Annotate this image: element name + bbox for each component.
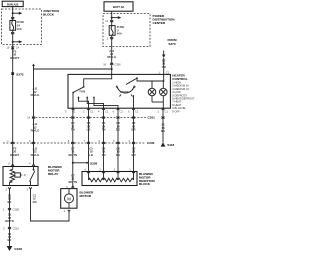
pin 14 connector C201 on relay branch	[27, 116, 35, 120]
svg-text:RD/LG: RD/LG	[107, 55, 116, 59]
svg-text:BK/TN: BK/TN	[69, 180, 78, 184]
svg-text:C201: C201	[13, 227, 20, 231]
blower motor label	[80, 190, 95, 197]
wire label C5 18 LB (P2 lower)	[89, 146, 93, 156]
wire label C3 18 BR (P5 upper)	[131, 121, 135, 131]
wire fan high contact to pin	[94, 98, 118, 108]
node junction dot with arrow (top)	[12, 12, 23, 15]
resistor element 2	[104, 172, 119, 182]
svg-text:C1: C1	[105, 110, 109, 114]
svg-text:DB/WT: DB/WT	[10, 153, 19, 157]
wire label F3 20 DB/WT (below C206)	[10, 146, 19, 156]
wire label C6 18 DG (P4 upper)	[116, 121, 120, 131]
svg-text:TN: TN	[71, 128, 75, 132]
wire label Z1 18 BK (relay ground lower)	[7, 232, 11, 242]
wire label C7 12 TN (motor feed upper)	[71, 121, 75, 131]
heater control legend	[172, 73, 195, 113]
svg-text:DG: DG	[116, 128, 120, 132]
svg-text:C201: C201	[148, 116, 156, 120]
resistor element 3	[118, 172, 133, 182]
svg-text:FAN: FAN	[80, 89, 86, 93]
svg-text:BR: BR	[131, 153, 135, 157]
wire junction block to splice S275	[12, 45, 14, 144]
wire fan med contact to pin	[87, 98, 103, 108]
svg-text:G108: G108	[14, 247, 22, 251]
svg-text:0-OFF: 0-OFF	[172, 109, 180, 113]
node junction dot PDC output split	[111, 68, 113, 70]
svg-text:C206: C206	[147, 141, 155, 145]
relay armature and contact	[15, 167, 35, 186]
power distribution center (dashed)	[103, 14, 150, 47]
pin 4 connector C206 on relay branch	[29, 139, 35, 144]
svg-text:DG: DG	[33, 200, 37, 204]
wire label A11 12 RD/LG (below C201)	[31, 122, 40, 132]
fan switch	[72, 86, 85, 108]
svg-text:RUN A22: RUN A22	[7, 2, 19, 6]
wire fan low contact to pin	[79, 98, 89, 108]
svg-text:TN: TN	[102, 128, 106, 132]
wire PDC output into heater control	[111, 69, 113, 74]
heater control box	[68, 74, 170, 108]
pin 19 connector C4 below junction block	[6, 46, 19, 50]
svg-text:TN: TN	[102, 153, 106, 157]
junction block (dashed)	[2, 9, 42, 45]
svg-text:C1: C1	[165, 110, 169, 114]
wire motor feed from S208	[72, 187, 74, 189]
svg-text:LB: LB	[87, 128, 91, 132]
svg-text:RD/LG: RD/LG	[31, 129, 40, 133]
wire label C4 18 TN (P3 lower)	[102, 146, 106, 156]
node BATT A0 feed box	[104, 2, 133, 11]
resistor block label	[139, 172, 156, 186]
wire S270 feed to heater control pin L	[163, 58, 165, 74]
svg-text:BK/TN: BK/TN	[69, 153, 78, 157]
svg-text:10A: 10A	[17, 27, 22, 31]
wire label F3 20 DB/WT	[10, 49, 19, 59]
svg-text:BK: BK	[7, 238, 11, 242]
pin 16 inline connector C306	[103, 63, 121, 67]
svg-text:MOTOR: MOTOR	[80, 194, 92, 198]
wire label C6 18 DG (P4 lower)	[116, 146, 120, 156]
wire relay pin 2 ground run	[9, 189, 11, 246]
pin 12 connector on wire above fuse 3	[105, 19, 113, 23]
relay label	[48, 165, 63, 176]
connector bumps at C206 crossings	[68, 139, 135, 144]
svg-text:RD/LG: RD/LG	[31, 153, 40, 157]
svg-text:C1: C1	[90, 110, 94, 114]
svg-text:BLOCK: BLOCK	[139, 182, 151, 186]
connector on wire below fuse 24	[11, 32, 14, 34]
power distribution center label	[153, 14, 176, 25]
svg-text:M: M	[67, 196, 71, 201]
svg-text:RD/LG: RD/LG	[31, 93, 40, 97]
svg-text:BATT A0: BATT A0	[113, 5, 125, 9]
svg-text:DB/WT: DB/WT	[10, 56, 19, 60]
svg-text:CENTER: CENTER	[153, 21, 166, 25]
heater control bottom pins	[65, 108, 168, 113]
svg-text:BR: BR	[131, 128, 135, 132]
wire lamp ground bus	[134, 95, 164, 108]
wire S275 to relay coil pin	[12, 143, 14, 167]
wire heater pin 2 to resistor block	[88, 108, 90, 171]
wire PDC output to relay branch (horizontal)	[34, 69, 112, 166]
svg-text:C306: C306	[114, 63, 121, 67]
wire feed inside heater control to fan switch	[84, 74, 112, 86]
node RUN A22 feed box	[2, 1, 23, 6]
wire BATT A0 to fuse 3	[111, 11, 113, 25]
wire mode wiper to lamp bus	[137, 78, 164, 81]
svg-text:C1: C1	[135, 110, 139, 114]
wire RUN A22 to fuse 24	[12, 7, 14, 21]
resistor element 1	[89, 172, 104, 182]
node junction dot with arrow (bottom)	[12, 40, 23, 43]
pin 16 inline connector C208	[3, 208, 19, 212]
wire label C5 18 LB (P2 upper)	[87, 121, 91, 131]
svg-text:CONTROL: CONTROL	[172, 77, 187, 81]
lamp illumination 2	[160, 81, 168, 96]
connector on wire above fuse 24	[11, 17, 14, 19]
mode switch	[116, 77, 138, 96]
connector C201 (dashed)	[32, 116, 155, 120]
svg-text:RELAY: RELAY	[48, 172, 59, 176]
wire label A11 12 RD/LG (relay branch upper)	[31, 87, 40, 97]
wire heater pin 3 to splice S208 (motor feed)	[72, 108, 74, 117]
wire fuse 3 to PDC output	[111, 35, 113, 69]
svg-text:S208: S208	[90, 161, 98, 165]
splice S275	[11, 72, 24, 76]
blower motor relay box	[3, 167, 38, 186]
fan switch contacts	[77, 96, 95, 98]
resistor block output tap	[133, 172, 135, 181]
splice symbol S118	[161, 142, 175, 147]
wire heater pin 5 to resistor block	[133, 108, 135, 171]
splice S208	[72, 161, 98, 165]
wire heater pin 1 ground to S118	[162, 108, 164, 142]
connector C206 (dashed)	[3, 141, 155, 145]
node FROM S270 feed	[162, 38, 177, 58]
wire motor ground to relay pin 1	[31, 189, 70, 221]
wire label C3 18 BR (P5 lower)	[131, 146, 135, 156]
wire label A11 12 RD/LG	[107, 49, 116, 59]
wire label A11 12 RD/LG (below C206)	[31, 146, 40, 156]
pin 1 connector C206 on fuse24 branch	[7, 139, 14, 144]
junction block label	[43, 9, 60, 16]
lamp illumination 1	[148, 81, 156, 96]
svg-text:S275: S275	[16, 72, 24, 76]
svg-text:BK: BK	[7, 200, 11, 204]
svg-text:C4: C4	[16, 46, 20, 50]
svg-text:C208: C208	[13, 208, 20, 212]
svg-text:40A: 40A	[117, 32, 122, 36]
svg-text:LB: LB	[89, 153, 93, 157]
svg-text:S118: S118	[167, 143, 174, 147]
wire label Z1 18 BK (relay ground upper)	[7, 193, 11, 203]
wire heater pin 6 to resistor block	[117, 108, 119, 171]
wire heater pin 4 to resistor block	[103, 108, 105, 171]
ground G108	[7, 246, 23, 251]
svg-text:BLOCK: BLOCK	[43, 12, 55, 16]
svg-text:DG: DG	[116, 153, 120, 157]
pin 2 connector on wire below fuse 3	[107, 36, 114, 40]
svg-text:BK: BK	[161, 129, 165, 133]
wire label Z1 18 BK/TN (relay ground mid)	[5, 213, 14, 223]
pin 3 inline connector C201	[3, 227, 19, 231]
svg-text:S270: S270	[168, 42, 176, 46]
svg-text:BK/TN: BK/TN	[5, 219, 14, 223]
fuse 3 (40A) in PDC	[109, 25, 124, 35]
node junction dot with arrow in PDC	[111, 16, 122, 19]
relay bottom pins	[5, 187, 31, 191]
pin L C1 on heater control top	[159, 70, 170, 74]
blower motor resistor block	[82, 168, 137, 186]
wire label C1 12 DG (relay pin1)	[33, 193, 37, 203]
connector bumps at C201 crossings	[71, 117, 164, 119]
relay top pins	[8, 162, 35, 166]
svg-text:MODE: MODE	[120, 90, 129, 94]
blower motor	[61, 189, 77, 209]
wire lamp feed pin drop	[163, 74, 165, 82]
fuse 24 (10A) in junction block	[10, 20, 24, 31]
pin 4 on blower motor bottom	[64, 209, 71, 213]
wire label C4 18 TN (P3 upper)	[102, 121, 106, 131]
wire label E2 20 OR	[162, 58, 166, 68]
wire label Z1 18 BK (ground)	[161, 123, 165, 133]
wire label C7 12 TN (to motor)	[69, 173, 78, 183]
wire fuse 24 to output	[12, 30, 14, 44]
svg-text:C1: C1	[120, 110, 124, 114]
pin 5 on blower motor	[66, 185, 74, 189]
wire label C7 12 TN (below C206)	[69, 146, 78, 156]
relay coil	[10, 167, 15, 186]
svg-text:C1: C1	[166, 70, 170, 74]
